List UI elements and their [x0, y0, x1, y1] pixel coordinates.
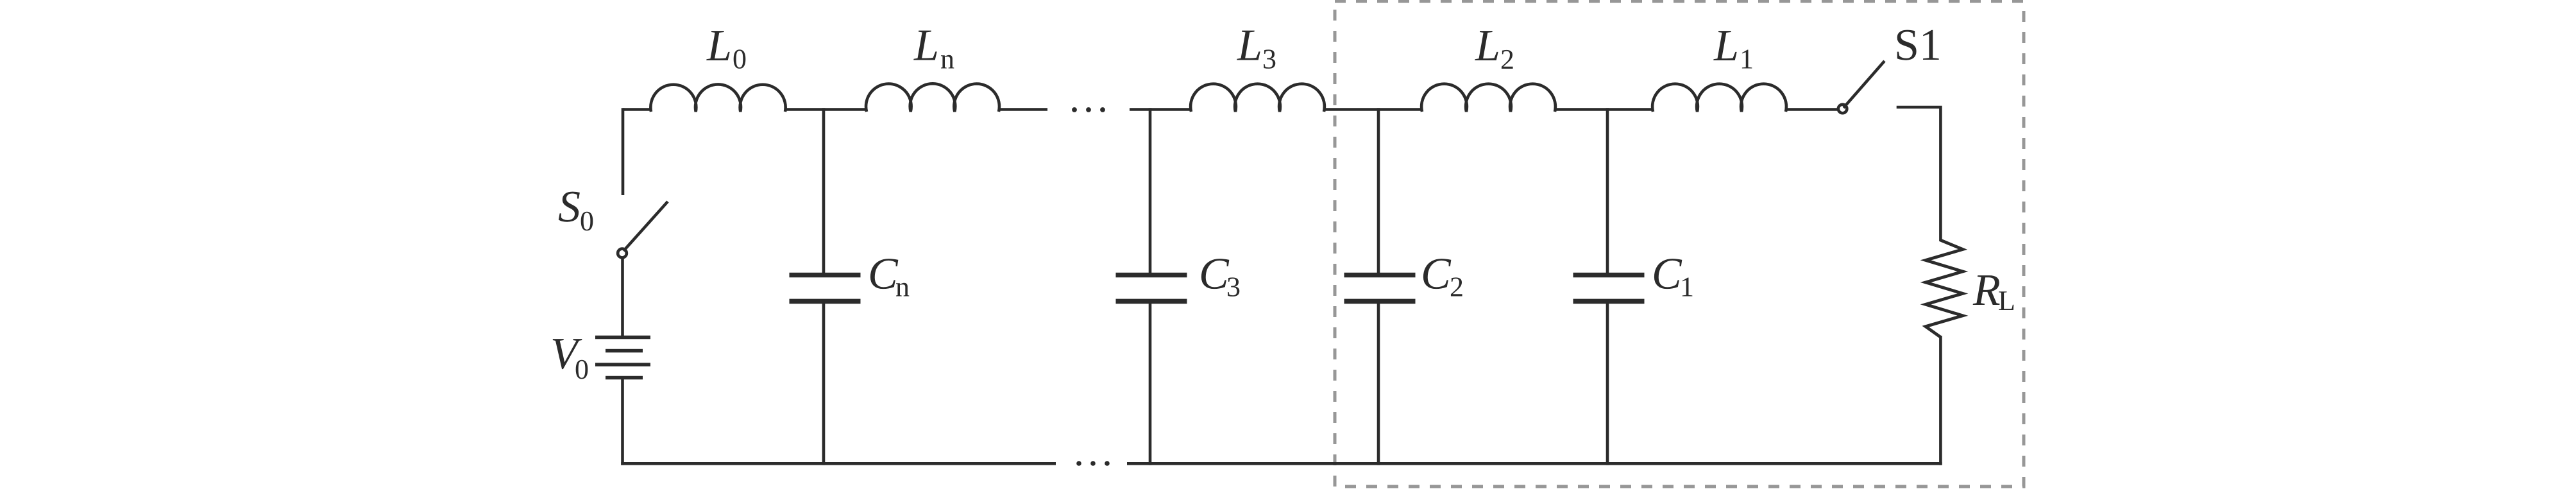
wire L1 to switch S1 [1785, 108, 1837, 111]
svg-text:C: C [1652, 250, 1682, 299]
capacitor C2 plates [1344, 275, 1416, 302]
svg-text:L: L [1998, 285, 2015, 316]
inductor Ln [866, 83, 999, 112]
switch S1 pivot circle [1838, 105, 1847, 114]
dashed box [1335, 1, 2024, 487]
svg-text:L: L [706, 21, 732, 71]
label C3 [1199, 250, 1241, 303]
wire RL bottom to bottom rail [1939, 336, 1942, 465]
svg-text:1: 1 [1680, 271, 1694, 303]
capacitor C2 bottom lead [1377, 304, 1380, 465]
label C2 [1421, 250, 1464, 303]
svg-text:n: n [940, 44, 954, 75]
dots bottom ellipsis [1076, 461, 1110, 466]
svg-text:3: 3 [1226, 271, 1241, 303]
label L2 [1475, 21, 1514, 75]
svg-text:n: n [895, 271, 910, 303]
label L1 [1713, 21, 1754, 75]
wire dots to L3 through C3 node [1130, 108, 1192, 111]
wire bottom rail left segment [621, 462, 1056, 465]
wire Ln to dots [998, 108, 1047, 111]
svg-text:2: 2 [1500, 44, 1514, 75]
wire battery to bottom rail [621, 379, 624, 465]
label S1 [1894, 21, 1942, 70]
svg-text:R: R [1972, 266, 2001, 315]
switch S1 blade [1843, 61, 1885, 108]
svg-text:L: L [1475, 21, 1500, 71]
wire S0 to battery [621, 259, 624, 336]
label Cn [868, 250, 910, 303]
wire top right corner [1897, 107, 1941, 241]
capacitor C2 top lead [1377, 108, 1380, 273]
svg-text:C: C [1199, 250, 1230, 299]
wire top left stub [623, 108, 652, 111]
label C1 [1652, 250, 1694, 303]
wire left vertical (top terminal of S0) [622, 108, 625, 195]
svg-text:0: 0 [733, 44, 747, 75]
wire L2 to L1 through C1 node [1554, 108, 1654, 111]
svg-text:1: 1 [1740, 44, 1754, 75]
label S0 [558, 182, 594, 237]
svg-text:2: 2 [1450, 271, 1464, 303]
label L0 [706, 21, 747, 75]
inductor L3 [1191, 84, 1325, 112]
label V0 [550, 329, 589, 385]
svg-text:0: 0 [575, 354, 589, 385]
dots top ellipsis [1072, 107, 1105, 112]
wire bottom rail right segment [1127, 462, 1942, 465]
switch S0 blade [623, 202, 668, 251]
svg-text:C: C [868, 250, 899, 299]
svg-text:C: C [1421, 250, 1452, 299]
capacitor Cn bottom lead [822, 304, 826, 465]
label Ln [913, 21, 954, 75]
capacitor C3 top lead [1149, 108, 1152, 273]
svg-text:L: L [913, 21, 939, 71]
capacitor C1 bottom lead [1606, 304, 1609, 465]
capacitor Cn plates [790, 275, 861, 302]
wire L0 to Ln through Cn node [784, 108, 867, 111]
inductor L2 [1421, 84, 1555, 112]
capacitor Cn top lead [822, 108, 826, 273]
wire L3 to L2 through C2 node [1323, 108, 1423, 111]
battery V0 plates [595, 338, 650, 378]
resistor RL zigzag [1926, 240, 1963, 337]
inductor L0 [650, 84, 785, 112]
label RL [1972, 266, 2015, 316]
svg-text:L: L [1237, 21, 1262, 71]
svg-text:L: L [1713, 21, 1739, 71]
svg-text:3: 3 [1262, 44, 1276, 75]
svg-text:0: 0 [580, 205, 594, 237]
inductor L1 [1652, 84, 1786, 112]
switch S0 pivot circle [618, 249, 627, 258]
svg-text:S1: S1 [1894, 21, 1942, 70]
capacitor C1 top lead [1606, 108, 1609, 273]
svg-text:S: S [558, 182, 580, 232]
label L3 [1237, 21, 1276, 75]
capacitor C3 plates [1116, 275, 1187, 302]
capacitor C1 plates [1573, 275, 1645, 302]
capacitor C3 bottom lead [1149, 304, 1152, 465]
